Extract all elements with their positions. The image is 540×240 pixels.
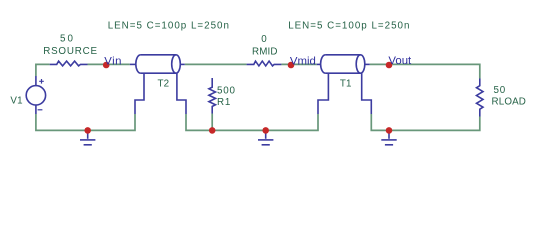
wire top rail from V1 to RSOURCE [36,64,50,76]
wire R1 bottom [211,114,213,131]
svg-text:LEN=5 C=100p L=250n: LEN=5 C=100p L=250n [108,20,230,31]
svg-text:50: 50 [494,85,507,96]
svg-text:T1: T1 [340,78,352,89]
wire T1 left leg to mid bottom rail [186,114,318,130]
svg-text:RMID: RMID [252,46,278,57]
transmission line T2 [130,55,186,114]
resistor RMID [247,61,282,66]
ground at output rail [381,130,396,144]
wire RMID to Vmid to T1 [281,63,316,65]
junction dot V1 ground [84,127,91,134]
wire T2 to RMID [185,63,247,65]
wire T1 to Vout to RLOAD corner [370,64,480,78]
ground at V1 rail [80,130,95,144]
svg-text:50: 50 [60,33,75,44]
voltage source V1 [26,76,45,114]
node Vout [386,62,393,69]
svg-text:RSOURCE: RSOURCE [43,46,98,57]
svg-text:500: 500 [217,86,236,97]
node Vmid [288,62,295,69]
svg-text:0: 0 [261,34,267,45]
resistor RSOURCE [50,61,88,66]
ground at mid rail [258,130,273,144]
wire RSOURCE to Vin to T2 [88,63,130,65]
svg-text:RLOAD: RLOAD [492,97,527,108]
wire RLOAD bottom to ground junction [371,114,480,130]
node Vin [103,62,110,69]
svg-text:T2: T2 [158,78,170,89]
junction dot output ground [386,127,393,134]
resistor RLOAD [477,79,484,117]
wire T2 left leg to V1 bottom rail [36,114,135,130]
svg-text:Vmid: Vmid [290,56,316,68]
svg-text:Vout: Vout [388,55,412,67]
svg-text:LEN=5 C=100p L=250n: LEN=5 C=100p L=250n [288,20,410,31]
transmission line T1 [317,55,372,114]
svg-text:R1: R1 [217,97,231,108]
junction dot mid ground [262,127,269,134]
junction dot R1 bottom [209,127,216,134]
svg-text:V1: V1 [10,95,22,106]
svg-text:Vin: Vin [104,55,122,67]
resistor R1 [209,78,216,114]
